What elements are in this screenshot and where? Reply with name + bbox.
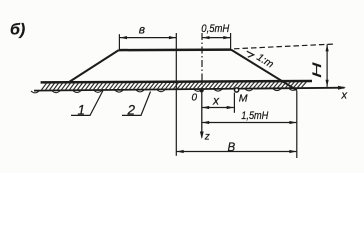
ground base line / x axis (34, 88, 345, 91)
svg-text:z: z (204, 132, 210, 143)
dashed crest level line (234, 44, 335, 49)
svg-text:2: 2 (127, 103, 136, 118)
dimension в extension left (118, 34, 120, 49)
dimension в line (120, 37, 176, 39)
svg-text:0: 0 (192, 93, 198, 104)
leader line 1 (71, 90, 104, 116)
svg-text:M: M (239, 93, 248, 105)
dimension H line (326, 44, 328, 86)
dimension B line (177, 151, 297, 153)
svg-text:1,5mH: 1,5mH (241, 110, 268, 122)
svg-text:B: B (228, 142, 236, 154)
axis line (right end of в / left end of B) (175, 33, 177, 156)
embankment crest edge (119, 48, 231, 51)
embankment right slope (231, 50, 297, 91)
right extension line (296, 91, 298, 159)
centerline dash-dot (201, 33, 203, 90)
origin point 0 (199, 88, 203, 92)
soil break marks (31, 89, 297, 93)
ground surface line (41, 81, 312, 82)
svg-text:б): б) (10, 22, 25, 39)
svg-text:1: 1 (78, 103, 86, 118)
svg-text:x: x (341, 90, 348, 102)
svg-text:x: x (212, 94, 220, 108)
slope arrow 1:m (247, 51, 254, 57)
z axis (201, 90, 203, 137)
ground hatching (42, 82, 307, 90)
dimension x extension under M (233, 93, 235, 113)
svg-text:0,5mH: 0,5mH (201, 23, 229, 35)
point M (235, 88, 239, 92)
svg-text:H: H (311, 62, 324, 78)
dimension 0,5mH extension right (230, 33, 232, 49)
dimension 1,5mH line (202, 122, 296, 124)
x axis arrow (338, 86, 346, 90)
dimension x line (202, 107, 234, 109)
svg-text:в: в (139, 23, 145, 37)
leader line 2 (122, 92, 151, 116)
embankment left slope (69, 50, 119, 82)
dimension 0,5mH line (202, 37, 230, 39)
